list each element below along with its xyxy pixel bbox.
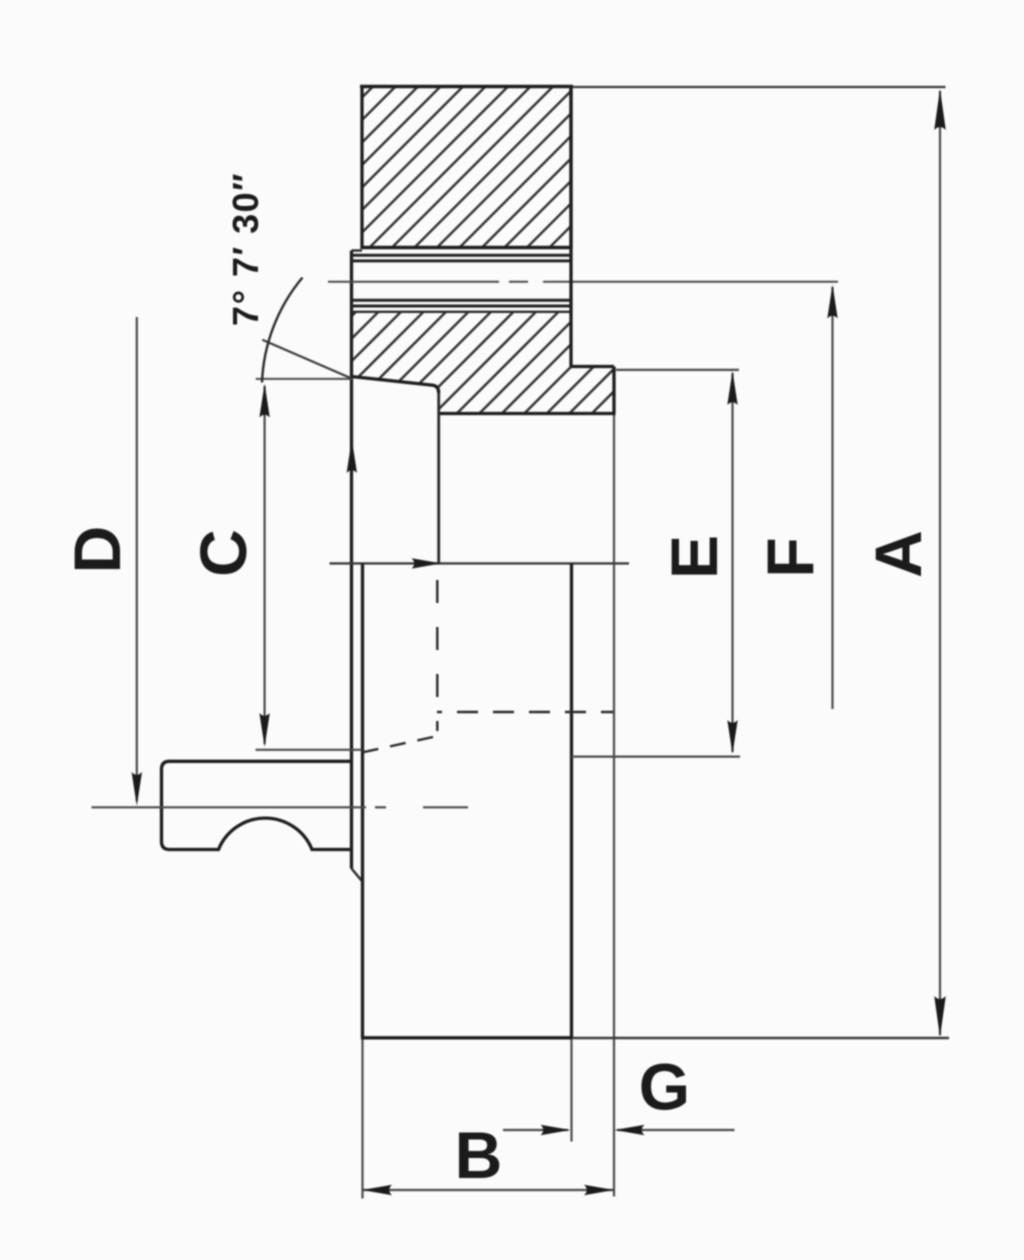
svg-text:F: F <box>753 537 827 577</box>
wire: bore band line 4 <box>352 305 572 308</box>
dimension F line <box>831 287 833 709</box>
svg-text:A: A <box>861 530 935 578</box>
centerline: bore axis dash-dot <box>328 281 499 283</box>
arrow E down <box>727 720 737 754</box>
svg-text:B: B <box>455 1118 503 1192</box>
hatched flange section <box>352 312 615 414</box>
wire: flange hatch bottom edge <box>439 412 616 415</box>
angle dim: slanted ray <box>262 340 352 379</box>
extension line: E top <box>616 369 739 371</box>
arrow B left end <box>362 1185 392 1195</box>
wire: left edge upper <box>350 251 353 869</box>
wire: flange right edge <box>612 367 615 414</box>
wire: hatch top boundary <box>352 311 572 313</box>
hidden dashed: cam pocket diagonal <box>362 737 433 753</box>
centerline: stud axis dash-dot <box>92 806 367 808</box>
arrow G left-pointing <box>615 1125 645 1135</box>
hidden dashed: cam pocket vertical <box>436 577 438 731</box>
arrow on back face pointing right <box>412 558 442 568</box>
hidden dashed: cam axis horizontal <box>437 711 613 713</box>
extension line: C bottom <box>256 749 363 751</box>
wire: barrel bottom face <box>361 1036 572 1039</box>
wire: bore band line 3 <box>352 299 572 302</box>
wire: left edge jog <box>352 869 362 881</box>
angle dim: horizontal ray <box>256 378 352 380</box>
arrow B right end <box>584 1185 614 1195</box>
dimension G right tail <box>617 1129 735 1131</box>
extension line: right of flange down to B dim <box>613 414 615 1197</box>
wire: block right edge <box>569 87 572 367</box>
wire: barrel left edge <box>361 563 364 1037</box>
dimension A line <box>939 91 941 1035</box>
angle dim: arc <box>262 278 303 383</box>
wire: back face line with extension overhangs <box>330 562 630 564</box>
wire: block bottom edge <box>362 246 571 249</box>
extension line: top edge to A dim <box>573 86 946 88</box>
dimension D line <box>136 317 138 801</box>
hatched block: spindle shaft section <box>362 87 571 248</box>
extension line: bottom face to A dim <box>572 1037 949 1039</box>
dimension B line <box>362 1189 614 1191</box>
extension line: E bottom <box>572 755 741 757</box>
extension line: barrel left edge down for B <box>361 1038 363 1199</box>
arrow E up <box>727 371 737 405</box>
svg-text:G: G <box>639 1050 690 1124</box>
arrow D down <box>132 772 142 806</box>
wire: recess left wall <box>437 393 440 563</box>
dimension C line <box>264 386 266 744</box>
arrow F up <box>827 285 837 319</box>
dimension G left tail <box>503 1129 568 1131</box>
svg-text:7° 7′ 30″: 7° 7′ 30″ <box>225 172 266 326</box>
wire: top edge of block <box>360 85 573 88</box>
arrow on left edge pointing up <box>347 439 357 473</box>
wire: ledge top of wide section <box>352 249 363 251</box>
wire: flange step face <box>571 365 614 368</box>
extension line: barrel right edge down for G <box>570 1038 572 1142</box>
dimension E line <box>731 373 733 752</box>
wire: bore band line 2 <box>352 259 572 262</box>
svg-text:D: D <box>60 526 134 574</box>
arrow C up <box>259 384 269 418</box>
svg-text:C: C <box>186 529 260 577</box>
wire: bore band line 1 <box>352 254 572 257</box>
arrow A up <box>934 89 946 130</box>
wire: taper surface 7deg <box>352 377 439 394</box>
arrow G right-pointing <box>541 1125 571 1135</box>
svg-text:E: E <box>657 535 731 579</box>
arrow A down <box>934 996 946 1037</box>
arrow C down <box>259 713 269 747</box>
camlock stud outline <box>162 761 352 849</box>
wire: barrel right edge <box>570 563 573 1037</box>
